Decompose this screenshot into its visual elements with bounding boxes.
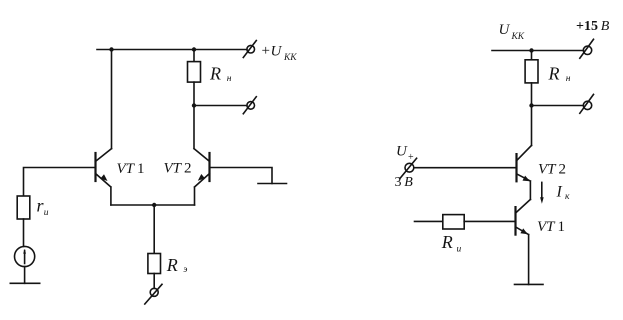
terminal +Ukk (circle with slash) xyxy=(243,41,256,58)
svg-text:КК: КК xyxy=(283,53,297,63)
transistor VT1 (left circuit) xyxy=(96,149,112,205)
svg-text:R: R xyxy=(166,255,178,275)
ground (VT2 base, left circuit) xyxy=(258,183,287,185)
transistor VT2 (right circuit) xyxy=(517,145,532,199)
ground (right circuit) xyxy=(515,283,544,285)
svg-text:+: + xyxy=(408,152,414,163)
wire common emitter bus xyxy=(111,204,195,206)
svg-text:к: к xyxy=(565,192,570,202)
svg-text:н: н xyxy=(227,74,232,84)
svg-text:+15 В: +15 В xyxy=(576,19,610,34)
resistor Ri (right) xyxy=(443,215,464,229)
wire VT2 base xyxy=(210,168,273,184)
label Ik xyxy=(556,184,571,202)
resistor Rn (left) xyxy=(188,50,201,106)
svg-text:I: I xyxy=(556,184,563,201)
resistor r_i (source internal resistance) xyxy=(17,196,30,219)
node junction dot on rail above Rn xyxy=(192,47,196,51)
svg-text:и: и xyxy=(44,208,49,218)
svg-text:R: R xyxy=(209,64,221,84)
svg-text:U: U xyxy=(499,22,511,38)
svg-text:КК: КК xyxy=(511,32,525,42)
label Rn (left) xyxy=(209,64,232,84)
wire top supply rail (left circuit) xyxy=(97,49,247,51)
wire Ri to VT1 base xyxy=(464,220,515,222)
terminal input U+ (circle with slash) xyxy=(400,158,417,179)
svg-text:н: н xyxy=(566,74,571,84)
label Ukk (right circuit) xyxy=(499,22,525,42)
terminal Re bottom (circle with slash) xyxy=(145,284,162,304)
wire source to ground xyxy=(24,267,26,284)
transistor VT1 (right circuit) xyxy=(516,199,531,284)
svg-text:э: э xyxy=(183,265,187,275)
terminal output (left circuit, circle with slash) xyxy=(243,97,256,114)
transistor VT2 (left circuit) xyxy=(194,106,210,206)
svg-text:VT 2: VT 2 xyxy=(164,161,192,177)
label r_i xyxy=(37,196,49,219)
label Re xyxy=(166,255,188,275)
terminal output (right circuit, circle with slash) xyxy=(580,94,594,113)
wire VT2 base (right) xyxy=(414,167,517,169)
ground (left source branch) xyxy=(10,282,39,284)
wire output line (left circuit) xyxy=(194,105,247,107)
wire VT1 collector drop xyxy=(111,50,113,149)
wire resistor to source xyxy=(23,219,25,246)
wire output line (right circuit) xyxy=(532,105,584,107)
svg-text:3 В: 3 В xyxy=(395,175,414,190)
node junction dot at Rn bottom / output xyxy=(192,103,196,107)
svg-text:R: R xyxy=(441,232,453,252)
arrow Ik (collector current) xyxy=(540,182,544,203)
svg-text:U: U xyxy=(271,44,283,60)
node junction dot on rail above VT1 collector xyxy=(109,47,113,51)
wire VT1 base xyxy=(24,168,96,197)
wire VT1 base stub (right) xyxy=(415,220,443,222)
label Ri (right) xyxy=(441,232,462,255)
label Rn (right) xyxy=(548,63,571,84)
node junction dot emitter bus / Re tap xyxy=(152,203,156,207)
node junction dot rail / Rn (right) xyxy=(529,48,533,52)
node junction dot output (right) xyxy=(529,103,533,107)
svg-text:+: + xyxy=(262,43,270,59)
terminal +15V (circle with slash) xyxy=(580,39,594,58)
svg-text:VT 2: VT 2 xyxy=(538,161,566,177)
svg-text:и: и xyxy=(457,245,462,255)
resistor Rn (right) xyxy=(525,51,538,106)
svg-text:U: U xyxy=(396,144,408,160)
resistor Re xyxy=(148,205,161,288)
svg-text:VT 1: VT 1 xyxy=(117,161,145,177)
label +Ukk (left circuit) xyxy=(262,43,298,63)
wire Rn to VT2 collector xyxy=(531,106,533,146)
svg-text:R: R xyxy=(548,63,560,83)
svg-text:VT 1: VT 1 xyxy=(537,219,565,235)
current source I (circle with arrow) xyxy=(15,246,35,266)
label U+ (input) xyxy=(396,144,414,164)
wire top supply rail (right circuit) xyxy=(492,50,583,52)
